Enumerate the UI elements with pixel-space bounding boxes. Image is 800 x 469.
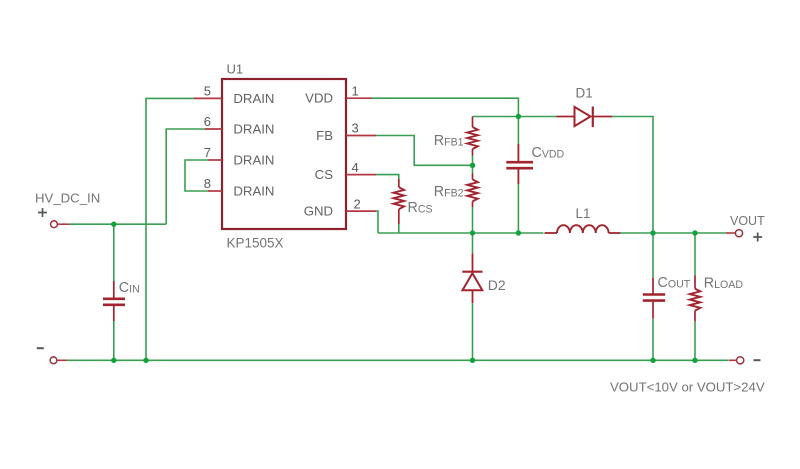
capacitor CVDD lead top [517,144,519,162]
port pin stub right- [729,359,737,361]
junction node 6 [650,230,655,235]
svg-text:1: 1 [352,83,359,98]
svg-text:D2: D2 [488,277,506,293]
resistor RLOAD lead top [694,275,696,288]
inductor L1 windings [557,225,609,233]
minus sign left [37,347,44,349]
capacitor COUT lead bottom [652,302,654,319]
junction node 10 [470,358,475,363]
label D1 [576,86,593,101]
capacitor CIN plates [103,299,125,305]
label RCS [408,200,433,216]
pin number 5 [204,84,211,99]
svg-text:7: 7 [204,145,211,160]
label RFB2 [434,184,464,200]
inductor L1 lead left [545,232,558,234]
junction node 1 [111,222,116,227]
pin name CS [315,167,334,182]
wire COUT top [652,233,654,278]
junction node 5 [516,230,521,235]
label RFB1 [434,133,464,149]
resistor RLOAD lead bottom [694,311,696,322]
diode D1 anode lead [557,116,575,118]
wire D1 row left [473,116,557,118]
resistor RCS lead top [398,179,400,187]
pin number 4 [352,160,359,175]
wire pin2 down [376,211,378,233]
svg-text:RFB2: RFB2 [434,184,464,200]
wire pin6 riser [166,129,205,224]
resistor RCS lead bottom [398,209,400,224]
pin number 7 [204,145,211,160]
label L1 [576,206,591,221]
minus sign right [754,359,761,361]
wire RLOAD top [694,233,696,275]
svg-text:DRAIN: DRAIN [233,152,274,167]
capacitor CVDD plates [506,162,533,168]
wire RFB1 to node [472,156,474,166]
svg-text:6: 6 [204,114,211,129]
net label HV_DC_IN [35,191,100,206]
svg-text:DRAIN: DRAIN [233,91,274,106]
port GND-left terminal [50,357,57,364]
pin name DRAIN [233,91,274,106]
svg-text:RFB1: RFB1 [434,133,464,149]
wire rail to D2 [472,233,474,253]
port VOUT terminal [735,230,742,237]
diode D2 cathode bar [462,271,482,273]
junction node 11 [650,358,655,363]
svg-text:VDD: VDD [305,91,333,106]
wire RLOAD bottom [694,321,696,360]
svg-text:5: 5 [204,84,211,99]
pin number 1 [352,83,359,98]
svg-text:4: 4 [352,160,359,175]
wire +input rail [69,223,166,225]
resistor RFB1 lead bottom [472,149,474,156]
label CVDD [532,145,565,161]
port GND-right terminal [737,357,744,364]
svg-text:CIN: CIN [119,280,140,296]
junction node 3 [470,163,475,168]
label U1 refdes [227,62,244,77]
svg-text:8: 8 [204,176,211,191]
svg-text:KP1505X: KP1505X [227,236,284,251]
pin 5 stub [194,97,222,99]
label COUT [658,275,691,291]
resistor RFB1 lead top [472,117,474,128]
resistor RFB2 lead top [472,174,474,180]
wire COUT bottom [652,319,654,361]
wire RFB2 to rail [472,207,474,233]
junction node 2 [516,114,521,119]
svg-text:GND: GND [304,204,333,219]
pin name DRAIN [233,183,274,198]
wire CIN bottom [113,321,115,360]
wire node to RFB2 [472,165,474,173]
wire CVDD bottom [517,184,519,233]
junction node 8 [111,358,116,363]
resistor RLOAD zigzag [690,289,701,311]
wire mid rail [378,232,544,234]
wire VDD pin1 [372,98,518,116]
capacitor COUT plates [643,295,665,301]
svg-text:VOUT<10V or VOUT>24V: VOUT<10V or VOUT>24V [610,380,765,395]
svg-text:RCS: RCS [408,200,433,216]
diode D2 cathode lead [472,253,474,271]
resistor RFB2 lead bottom [472,201,474,207]
svg-text:CS: CS [315,167,334,182]
pin 3 stub [346,135,376,137]
IC U1 [222,79,346,229]
port pin stub VOUT [726,232,735,234]
note VOUT range [610,380,765,395]
port pin stub left- [57,359,67,361]
svg-text:RLOAD: RLOAD [704,276,744,292]
wire FB net [376,136,473,166]
junction node 12 [692,358,697,363]
pin name DRAIN [233,152,274,167]
diode D1 cathode bar [592,107,594,128]
value label KP1505X [227,236,284,251]
wire pins 7-8 bracket [185,160,208,191]
wire pin5 to ground [146,98,194,360]
wire CS net [376,175,399,179]
junction node 7 [692,230,697,235]
pin 7 stub [208,159,222,161]
pin 8 stub [208,190,222,192]
wire RCS to rail [398,224,400,233]
svg-text:U1: U1 [227,62,244,77]
pin number 8 [204,176,211,191]
wire CVDD top [517,117,519,145]
pin name DRAIN [233,121,274,136]
pin 1 stub [346,97,372,99]
port pin stub [58,223,70,225]
junction node 4 [470,230,475,235]
plus sign output [753,233,762,242]
pin number 3 [352,121,359,136]
capacitor CVDD lead bottom [517,169,519,184]
net label VOUT [730,214,765,228]
svg-text:3: 3 [352,121,359,136]
wire L1 to output [620,232,726,234]
svg-text:HV_DC_IN: HV_DC_IN [35,191,100,206]
svg-text:DRAIN: DRAIN [233,183,274,198]
resistor RFB1 zigzag [467,127,478,149]
svg-text:DRAIN: DRAIN [233,121,274,136]
pin name FB [316,128,333,143]
svg-text:FB: FB [316,128,333,143]
pin 4 stub [346,174,376,176]
port HV_DC_IN+ terminal [51,221,58,228]
svg-text:VOUT: VOUT [730,214,765,228]
inductor L1 lead right [609,232,621,234]
label CIN [119,280,140,296]
wire D1 to output corner [612,117,653,234]
pin 2 stub [346,210,376,212]
wire CIN top [113,224,115,281]
label RLOAD [704,276,744,292]
capacitor COUT lead top [652,278,654,295]
pin 6 stub [205,128,222,130]
wire ground rail [67,359,728,361]
diode D2 triangle [463,273,483,290]
resistor RFB2 zigzag [467,179,478,201]
diode D1 cathode lead [593,116,612,118]
svg-text:CVDD: CVDD [532,145,565,161]
junction node 9 [143,358,148,363]
pin name VDD [305,91,333,106]
svg-text:2: 2 [354,196,361,211]
capacitor CIN lead bottom [113,306,115,321]
resistor RCS zigzag [394,187,405,209]
svg-text:COUT: COUT [658,275,691,291]
pin number 2 [354,196,361,211]
label D2 [488,277,506,293]
plus sign input [38,208,47,217]
capacitor C1N lead top [113,281,115,298]
svg-text:L1: L1 [576,206,591,221]
pin name GND [304,204,333,219]
diode D2 anode lead [472,290,474,303]
diode D1 triangle [575,107,591,126]
svg-text:D1: D1 [576,86,593,101]
pin number 6 [204,114,211,129]
wire D2 to ground [472,303,474,360]
